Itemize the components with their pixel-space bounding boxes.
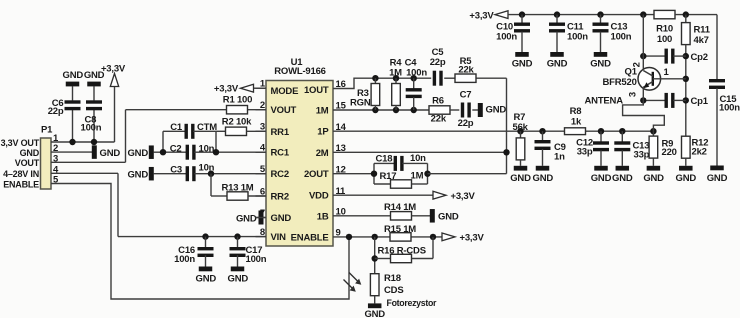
svg-text:3: 3 <box>627 92 638 97</box>
svg-text:R15 1M: R15 1M <box>384 224 416 235</box>
svg-text:GND: GND <box>196 274 217 285</box>
svg-text:RC1: RC1 <box>271 148 290 159</box>
svg-text:+3,3V: +3,3V <box>460 233 485 244</box>
svg-text:100n: 100n <box>496 32 517 43</box>
svg-text:10n: 10n <box>410 153 426 164</box>
svg-text:C3: C3 <box>170 164 182 175</box>
svg-text:22k: 22k <box>431 113 447 124</box>
svg-text:33p: 33p <box>577 147 593 158</box>
svg-text:R11: R11 <box>694 25 711 36</box>
svg-text:GND: GND <box>228 274 249 285</box>
svg-text:RGN: RGN <box>350 97 371 108</box>
svg-text:1P: 1P <box>317 127 329 138</box>
svg-text:+3,3V: +3,3V <box>214 84 239 95</box>
svg-text:VOUT: VOUT <box>271 105 297 116</box>
svg-text:CDS: CDS <box>384 285 403 296</box>
svg-text:4–28V IN: 4–28V IN <box>3 169 39 179</box>
svg-text:10n: 10n <box>199 162 215 173</box>
svg-text:2OUT: 2OUT <box>304 169 329 180</box>
svg-text:R10: R10 <box>656 24 673 35</box>
svg-text:RR1: RR1 <box>271 127 290 138</box>
svg-text:3: 3 <box>260 122 265 133</box>
svg-text:+3,3V: +3,3V <box>469 10 494 21</box>
svg-text:GND: GND <box>612 173 633 184</box>
svg-text:1OUT: 1OUT <box>304 85 329 96</box>
svg-text:100n: 100n <box>81 122 102 133</box>
svg-text:3,3V OUT: 3,3V OUT <box>1 138 40 148</box>
svg-text:GND: GND <box>100 148 121 159</box>
svg-text:GND: GND <box>438 211 459 222</box>
svg-text:7: 7 <box>260 208 265 219</box>
svg-text:2M: 2M <box>316 148 329 159</box>
svg-text:2k2: 2k2 <box>692 146 707 157</box>
svg-text:220: 220 <box>662 147 677 158</box>
svg-text:100: 100 <box>657 34 672 45</box>
svg-text:100n: 100n <box>406 67 427 78</box>
svg-text:RC2: RC2 <box>271 169 289 180</box>
svg-text:ROWL-9166: ROWL-9166 <box>274 66 326 77</box>
svg-text:GND: GND <box>547 59 568 70</box>
svg-text:R14 1M: R14 1M <box>384 202 416 213</box>
svg-text:2: 2 <box>632 62 643 67</box>
svg-text:100n: 100n <box>567 32 588 43</box>
svg-text:R13 1M: R13 1M <box>221 182 253 193</box>
svg-text:VOUT: VOUT <box>15 158 40 168</box>
svg-text:GND: GND <box>486 104 507 115</box>
svg-text:2: 2 <box>260 100 265 111</box>
svg-text:GND: GND <box>510 173 531 184</box>
svg-text:R18: R18 <box>384 273 401 284</box>
svg-text:MODE: MODE <box>271 86 299 97</box>
svg-text:ENABLE: ENABLE <box>291 232 329 243</box>
svg-text:P1: P1 <box>41 125 53 136</box>
svg-text:R1 100: R1 100 <box>223 95 252 106</box>
svg-text:100n: 100n <box>719 102 740 113</box>
svg-text:100n: 100n <box>611 32 632 43</box>
svg-text:+3,3V: +3,3V <box>101 64 126 75</box>
svg-text:Cp1: Cp1 <box>691 96 709 107</box>
svg-text:56k: 56k <box>513 122 529 133</box>
svg-text:10n: 10n <box>199 143 215 154</box>
svg-text:22k: 22k <box>458 65 474 76</box>
svg-text:R17: R17 <box>380 171 397 182</box>
svg-text:GND: GND <box>676 173 697 184</box>
svg-text:GND: GND <box>643 173 664 184</box>
svg-text:1B: 1B <box>317 211 329 222</box>
svg-text:100n: 100n <box>174 254 195 265</box>
svg-text:ANTENA: ANTENA <box>585 95 624 106</box>
svg-text:Cp2: Cp2 <box>691 52 708 63</box>
svg-text:1M: 1M <box>411 171 424 182</box>
svg-text:1k: 1k <box>571 116 582 127</box>
svg-text:BFR520: BFR520 <box>603 77 637 88</box>
svg-text:100n: 100n <box>246 254 267 265</box>
svg-text:GND: GND <box>591 173 612 184</box>
svg-text:GND: GND <box>590 59 611 70</box>
svg-text:R2 10k: R2 10k <box>222 117 252 128</box>
svg-text:+3,3V: +3,3V <box>451 191 476 202</box>
svg-text:VDD: VDD <box>309 191 329 202</box>
svg-text:1M: 1M <box>316 106 329 117</box>
svg-text:GND: GND <box>127 169 148 180</box>
svg-text:33p: 33p <box>634 150 650 161</box>
svg-text:22p: 22p <box>430 57 446 68</box>
svg-text:4k7: 4k7 <box>694 35 709 46</box>
svg-text:GND: GND <box>271 213 292 224</box>
svg-text:C2: C2 <box>170 143 182 154</box>
svg-text:8: 8 <box>260 227 265 238</box>
svg-text:R6: R6 <box>432 95 444 106</box>
svg-text:1n: 1n <box>554 151 565 162</box>
svg-text:GND: GND <box>364 309 385 318</box>
svg-text:RR2: RR2 <box>271 192 289 203</box>
svg-text:CTM: CTM <box>197 122 217 133</box>
svg-text:VIN: VIN <box>271 232 287 243</box>
svg-text:ENABLE: ENABLE <box>3 179 39 189</box>
svg-text:GND: GND <box>512 59 533 70</box>
svg-text:R16 R-CDS: R16 R-CDS <box>378 245 426 256</box>
svg-text:GND: GND <box>63 70 84 81</box>
svg-text:C18: C18 <box>376 154 393 165</box>
svg-text:6: 6 <box>260 186 265 197</box>
svg-text:1M: 1M <box>389 67 402 78</box>
svg-text:22p: 22p <box>48 106 64 117</box>
svg-text:GND: GND <box>707 173 728 184</box>
svg-text:C1: C1 <box>170 122 183 133</box>
svg-text:GND: GND <box>20 148 40 158</box>
svg-text:22p: 22p <box>458 118 474 129</box>
svg-text:GND: GND <box>533 173 554 184</box>
svg-text:C7: C7 <box>460 90 472 101</box>
svg-text:GND: GND <box>236 214 257 225</box>
svg-text:Fotorezystor: Fotorezystor <box>387 298 438 308</box>
svg-text:GND: GND <box>127 148 148 159</box>
svg-text:GND: GND <box>84 70 105 81</box>
